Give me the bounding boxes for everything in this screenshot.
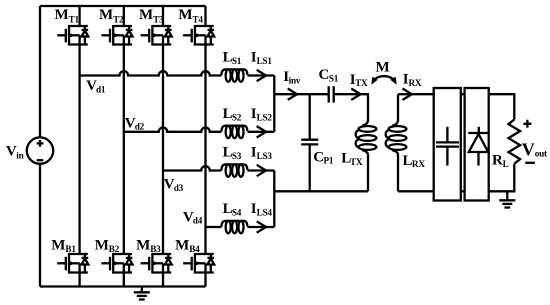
label M_B4 xyxy=(175,237,200,254)
svg-text:M: M xyxy=(376,59,390,75)
capacitor C_S1 xyxy=(329,86,334,102)
wire: leg 2 vertical xyxy=(123,6,125,287)
node Vd3 / wire phase 3 with hop xyxy=(163,166,221,170)
wire: bottom DC rail xyxy=(40,285,206,287)
wire phase 4 output + arrow I_LS4 xyxy=(247,221,274,232)
ground (output) xyxy=(499,191,515,207)
transistor M_B3 xyxy=(141,253,172,274)
label Vin xyxy=(6,144,24,161)
wire: left rail lower (Vin to bottom rail) xyxy=(39,164,41,287)
wire: box2 to load bottom xyxy=(489,164,515,192)
capacitor inside box 1 xyxy=(436,127,459,166)
svg-text:inv: inv xyxy=(289,76,301,86)
inductor L_S2 xyxy=(221,126,247,138)
label R_L xyxy=(492,153,509,170)
svg-text:B2: B2 xyxy=(109,244,120,254)
label M_T4 xyxy=(178,7,203,24)
svg-text:B4: B4 xyxy=(189,244,200,254)
wire: merge vertical bottom (phases 3-4) xyxy=(273,171,275,228)
label M_B1 xyxy=(51,237,76,254)
block box 1 (filter capacitor) xyxy=(434,88,461,201)
label I_RX xyxy=(403,71,422,88)
svg-text:L: L xyxy=(503,159,509,169)
svg-text:M: M xyxy=(51,237,65,253)
mutual coupling M arc xyxy=(371,76,396,85)
wire: RX bottom to rectifier xyxy=(398,190,434,192)
svg-text:T3: T3 xyxy=(153,14,164,24)
transistor M_T2 xyxy=(101,25,132,46)
svg-text:R: R xyxy=(492,153,503,169)
svg-text:M: M xyxy=(99,7,113,23)
svg-text:M: M xyxy=(178,7,192,23)
label I_inv xyxy=(283,69,301,86)
wire: left rail upper (Vin to top rail) xyxy=(39,6,41,137)
svg-text:RX: RX xyxy=(412,159,425,169)
svg-text:LS4: LS4 xyxy=(257,208,273,218)
label Vd2 xyxy=(125,115,145,131)
wire: box1 to box2 top xyxy=(461,93,465,95)
wire phase 2 output + arrow I_LS2 xyxy=(247,126,274,137)
label I_LS4 xyxy=(251,201,273,218)
wire: leg 4 vertical xyxy=(204,6,206,287)
label L_RX xyxy=(403,153,426,169)
block box 2 (rectifier) xyxy=(465,88,489,201)
label - (output) xyxy=(525,162,535,164)
wire: C_S1 to L_TX corner + arrow I_TX xyxy=(334,89,368,122)
label M_T1 xyxy=(55,7,80,24)
node Vd2 / wire phase 2 with hops xyxy=(124,127,222,131)
svg-text:TX: TX xyxy=(350,157,363,167)
svg-text:V: V xyxy=(6,144,17,160)
svg-text:d4: d4 xyxy=(193,216,203,226)
svg-text:M: M xyxy=(175,237,189,253)
resistor R_L xyxy=(509,120,521,164)
wire: merge vertical top (phases 1-2) xyxy=(273,76,275,132)
label M_B2 xyxy=(95,237,120,254)
wire: box2 to load top xyxy=(489,94,515,119)
svg-text:T4: T4 xyxy=(193,14,204,24)
svg-text:S3: S3 xyxy=(232,151,242,161)
wire: leg 1 vertical xyxy=(78,6,80,287)
svg-text:V: V xyxy=(522,139,535,159)
label L_S4 xyxy=(223,201,242,218)
label Vd3 xyxy=(164,177,184,193)
label M_T3 xyxy=(139,7,164,24)
label I_TX xyxy=(350,72,368,88)
svg-text:LS1: LS1 xyxy=(257,56,273,66)
svg-text:B1: B1 xyxy=(65,244,76,254)
voltage source Vin xyxy=(27,137,53,163)
svg-text:B3: B3 xyxy=(150,244,161,254)
svg-text:d3: d3 xyxy=(174,183,184,193)
inductor L_TX xyxy=(356,121,377,192)
label Vd4 xyxy=(183,210,203,226)
inductor L_S4 xyxy=(221,221,247,233)
label L_TX xyxy=(341,151,363,167)
wire: box1 to box2 bottom xyxy=(461,190,465,192)
diode inside box 2 xyxy=(468,127,488,166)
transistor M_B1 xyxy=(57,253,88,274)
svg-text:P1: P1 xyxy=(324,155,334,165)
label C_P1 xyxy=(313,149,334,165)
svg-text:d2: d2 xyxy=(135,122,145,132)
label I_LS3 xyxy=(251,145,273,162)
transistor M_B4 xyxy=(183,253,214,274)
transistor M_T3 xyxy=(141,25,172,46)
svg-text:M: M xyxy=(139,7,153,23)
capacitor C_P1 xyxy=(301,94,318,191)
svg-text:in: in xyxy=(16,150,23,160)
svg-text:LS2: LS2 xyxy=(257,113,273,123)
svg-text:LS3: LS3 xyxy=(257,151,273,161)
wire: top DC rail xyxy=(40,5,206,7)
wire: leg 3 vertical xyxy=(162,6,164,287)
wire: TX bottom return xyxy=(274,190,368,192)
svg-text:M: M xyxy=(95,237,109,253)
svg-text:RX: RX xyxy=(409,78,422,88)
wire phase 1 output + arrow I_LS1 xyxy=(247,70,274,81)
inductor L_S1 xyxy=(221,69,247,81)
wire phase 3 output + arrow I_LS3 xyxy=(247,165,274,176)
label Vout xyxy=(522,139,548,159)
label M_B3 xyxy=(136,237,161,254)
label L_S1 xyxy=(223,50,242,67)
svg-text:S1: S1 xyxy=(232,56,242,66)
inductor L_RX xyxy=(386,94,407,191)
svg-text:C: C xyxy=(319,67,330,83)
svg-text:S2: S2 xyxy=(232,113,242,123)
node Vd1 / wire phase 1 with hops xyxy=(80,71,222,75)
transistor M_T1 xyxy=(57,25,88,46)
transistor M_T4 xyxy=(183,25,214,46)
label I_LS1 xyxy=(251,50,273,67)
label C_S1 xyxy=(319,67,339,83)
svg-text:T1: T1 xyxy=(69,14,80,24)
svg-text:M: M xyxy=(55,7,69,23)
wire: inverter output + arrow I_inv xyxy=(274,89,328,100)
wire: RX top to rectifier + arrow I_RX xyxy=(398,89,434,100)
transistor M_B2 xyxy=(101,253,132,274)
svg-text:S4: S4 xyxy=(232,208,242,218)
node Vd4 / wire phase 4 xyxy=(206,226,222,228)
svg-text:out: out xyxy=(535,149,548,159)
svg-text:S1: S1 xyxy=(329,74,339,84)
svg-text:d1: d1 xyxy=(96,84,106,94)
svg-text:M: M xyxy=(136,237,150,253)
label M_T2 xyxy=(99,7,124,24)
label + (output) xyxy=(523,120,531,128)
label L_S3 xyxy=(223,145,242,162)
inductor L_S3 xyxy=(221,164,247,176)
svg-text:T2: T2 xyxy=(113,14,124,24)
label I_LS2 xyxy=(251,106,273,123)
ground (inverter midpoint) xyxy=(134,287,150,300)
label Vd1 xyxy=(86,78,106,94)
label L_S2 xyxy=(223,106,242,123)
svg-text:TX: TX xyxy=(355,78,368,88)
